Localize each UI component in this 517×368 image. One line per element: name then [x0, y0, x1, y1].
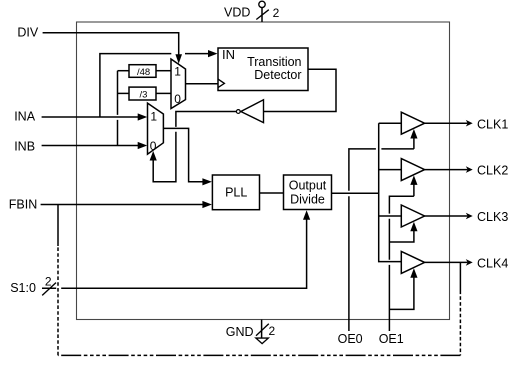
wire mux M1 out to detector clock: [186, 83, 219, 85]
wire feedback tap at CLK4 node: [459, 262, 461, 290]
svg-text:CLK3: CLK3: [477, 210, 508, 224]
svg-text:1: 1: [150, 110, 157, 124]
svg-text:IN: IN: [222, 47, 235, 62]
svg-text:Divide: Divide: [290, 193, 325, 207]
transition detector U1: [218, 48, 308, 91]
svg-text:CLK4: CLK4: [477, 257, 508, 271]
svg-text:DIV: DIV: [17, 26, 39, 40]
svg-text:0: 0: [150, 139, 157, 153]
S1:0 bus-width slash: [42, 283, 56, 296]
svg-text:INA: INA: [14, 109, 36, 123]
wire detector out to inverter: [264, 69, 337, 111]
wire OE1 to buffer B3 enable: [389, 230, 414, 242]
wire CLK4 out: [425, 261, 468, 263]
svg-text:FBIN: FBIN: [9, 197, 37, 211]
wire OE1 rail: [389, 196, 414, 331]
wire /3 to mux M1: [156, 92, 171, 94]
wire external feedback left segment (dashed): [57, 246, 59, 355]
svg-text:2: 2: [45, 274, 52, 288]
wire /48 to mux M1: [156, 70, 171, 72]
svg-text:0: 0: [174, 92, 181, 106]
wire OE1 to buffer B4 enable: [389, 277, 414, 310]
wire PLL to output divide: [260, 192, 284, 194]
wire mux M2 out to PLL: [163, 128, 203, 181]
GND bus-width slash: [256, 324, 269, 336]
svg-text:GND: GND: [226, 325, 254, 339]
buffer B3: [401, 205, 424, 227]
svg-text:/3: /3: [140, 89, 148, 100]
wire external feedback right segment (dashed): [459, 291, 461, 356]
svg-text:Transition: Transition: [247, 55, 301, 69]
wire DIV to mux M1 select: [43, 33, 179, 55]
inverter U2: [241, 100, 264, 123]
wire VDD stem: [261, 8, 263, 22]
clock chevron on detector: [218, 79, 224, 88]
wire S1:0 to output divide: [42, 219, 307, 288]
wire OE0 to buffer B1 enable: [413, 138, 415, 149]
ground symbol: [256, 338, 268, 344]
divider /48: [129, 65, 156, 78]
mux M1 (divider select): [171, 59, 186, 109]
VDD bus-width slash: [256, 10, 269, 20]
divider /3: [129, 87, 156, 100]
outer device box: [77, 22, 450, 320]
VDD pin circle: [259, 1, 265, 7]
wire inverter out to mux M2 select: [153, 112, 236, 182]
wire OE1 to buffer B2 enable: [413, 184, 415, 196]
output divide block: [284, 175, 332, 210]
wire OE0 rail: [349, 149, 414, 331]
wire FBIN to PLL: [41, 204, 203, 206]
wire INA: [42, 116, 139, 118]
buffer B1: [401, 112, 424, 134]
mux M2 (input select): [148, 103, 164, 154]
svg-text:2: 2: [273, 6, 280, 20]
svg-text:VDD: VDD: [224, 5, 250, 19]
svg-text:CLK1: CLK1: [477, 117, 508, 131]
svg-text:Output: Output: [289, 179, 327, 193]
wire rail to /3: [118, 92, 130, 94]
PLL block: [212, 175, 259, 210]
clock distribution bus: [379, 123, 402, 261]
buffer B4: [401, 251, 424, 273]
svg-text:INB: INB: [14, 139, 35, 153]
wire INA tap to Transition Detector IN: [100, 54, 209, 117]
wire INB: [42, 145, 139, 147]
svg-text:/48: /48: [137, 67, 150, 78]
svg-text:2: 2: [269, 324, 276, 338]
buffer B2: [401, 159, 424, 181]
wire CLK1 out: [425, 122, 468, 124]
wire feedback tap at FBIN node: [57, 205, 59, 247]
wire CLK3 out: [425, 215, 468, 217]
svg-text:CLK2: CLK2: [477, 164, 508, 178]
svg-text:OE1: OE1: [379, 332, 404, 346]
svg-text:1: 1: [174, 64, 181, 78]
wire output divide to clock bus: [332, 192, 379, 194]
wire INB tap to divider rail: [117, 71, 119, 146]
wire GND stem: [261, 320, 263, 339]
svg-text:Detector: Detector: [254, 68, 301, 82]
svg-text:PLL: PLL: [225, 186, 247, 200]
wire CLK2 out: [425, 169, 468, 171]
wire external feedback bottom segment (dashed): [58, 354, 460, 356]
wire rail to /48: [118, 70, 130, 72]
svg-text:OE0: OE0: [338, 332, 363, 346]
svg-text:S1:0: S1:0: [10, 281, 36, 295]
